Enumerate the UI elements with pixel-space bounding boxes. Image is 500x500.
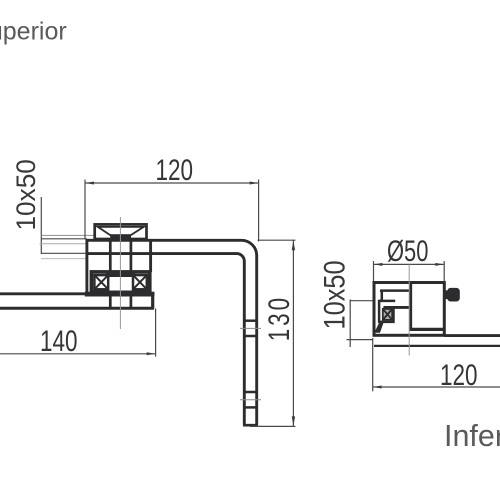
dimension 140 right arrow bbox=[147, 352, 156, 355]
bolt centerline left view bbox=[119, 217, 121, 329]
bolt shank right side bbox=[130, 239, 133, 308]
dimension 120 top left arrow bbox=[85, 182, 94, 185]
dimension D50 left extension line bbox=[373, 261, 375, 281]
svg-text:130: 130 bbox=[262, 298, 296, 342]
hook leg section profile: top flange line bbox=[380, 289, 411, 292]
dimension 120 top left extension line bbox=[84, 180, 86, 239]
rail right end cap bbox=[151, 293, 154, 309]
leg slot lower centerline bbox=[240, 399, 261, 401]
svg-text:Ø50: Ø50 bbox=[387, 233, 428, 267]
hook leg section profile: right web bbox=[392, 306, 395, 322]
roof hook leg bottom edge bbox=[243, 424, 258, 427]
hook leg section profile: left web bbox=[378, 300, 381, 323]
dimension 120 bottom line bbox=[373, 386, 500, 388]
svg-text:Inferior: Inferior bbox=[444, 419, 500, 453]
dimension 120 top line bbox=[85, 182, 259, 184]
countersunk bolt head box bbox=[95, 224, 147, 239]
leg slot upper centerline bbox=[240, 327, 261, 329]
leg slot upper line 2 bbox=[244, 335, 256, 338]
dimension D50 right arrow bbox=[435, 263, 444, 266]
rail bottom edge bbox=[0, 307, 154, 310]
faint reference line lower bbox=[40, 243, 88, 245]
roof hook L-arm outer contour bbox=[86, 240, 257, 425]
hook leg section foot bbox=[374, 323, 383, 333]
nut block outline bbox=[91, 272, 149, 292]
nut top band bbox=[106, 271, 135, 277]
dimension 120 top right extension line bbox=[258, 180, 260, 242]
dimension D50 left arrow bbox=[374, 263, 383, 266]
leg slot upper line 1 bbox=[244, 319, 256, 322]
rail top edge (right view) bbox=[444, 334, 500, 337]
bolt shank left side bbox=[109, 239, 112, 308]
washer plate bbox=[85, 292, 155, 297]
svg-text:10x50: 10x50 bbox=[318, 260, 351, 329]
faint reference line upper bbox=[41, 234, 94, 236]
hook leg section profile: upper web bbox=[381, 290, 384, 302]
side bolt neck bbox=[444, 290, 448, 299]
dimension 120 top right arrow bbox=[250, 182, 259, 185]
countersunk bolt neck shading bbox=[110, 234, 131, 239]
hook leg section hatched square bbox=[383, 309, 392, 320]
svg-text:120: 120 bbox=[156, 153, 194, 187]
dimension 130 top arrow bbox=[292, 241, 295, 251]
dimension 130 bottom extension line bbox=[250, 425, 295, 427]
dimension 130 bottom arrow bbox=[292, 416, 295, 426]
hook leg section profile: mid line bbox=[378, 300, 395, 303]
nut right hatched square bbox=[133, 275, 147, 289]
dimension D50 right extension line bbox=[443, 261, 445, 282]
dimension D50 line bbox=[374, 263, 445, 265]
clamp right end cap bbox=[149, 239, 152, 272]
dimension 140 line bbox=[0, 353, 156, 355]
nut left hatched square bbox=[94, 275, 108, 289]
clamp inner cavity bottom bbox=[410, 328, 444, 331]
rail top edge bbox=[0, 292, 154, 295]
svg-text:140: 140 bbox=[40, 324, 78, 358]
dimension 10x50 left vertical connector bbox=[40, 197, 42, 254]
dimension 120 bottom extension line bbox=[372, 338, 374, 391]
dimension 130 line bbox=[292, 240, 294, 426]
leg slot lower line 2 bbox=[244, 406, 256, 409]
side bolt head bbox=[447, 288, 460, 302]
dimension 120 bottom left arrow bbox=[373, 386, 382, 389]
svg-text:10x50: 10x50 bbox=[10, 159, 40, 230]
roof hook L-arm inner contour bbox=[86, 254, 244, 426]
countersunk bolt funnel bbox=[98, 227, 144, 236]
dimension 10x50 left extension line bottom bbox=[41, 252, 87, 254]
bolt centerline right view bbox=[408, 265, 410, 356]
hook leg section profile: bottom line bbox=[378, 321, 394, 324]
dimension 10x50 right vertical connector bbox=[349, 299, 351, 347]
dimension 130 top extension line bbox=[258, 239, 296, 241]
clamp body outline (bottom view) bbox=[374, 283, 444, 336]
dimension 140 extension line bbox=[155, 309, 157, 357]
dimension 10x50 left extension line top bbox=[41, 238, 87, 240]
hook leg section profile: slot line bbox=[383, 306, 410, 309]
clamp inner cavity wall bbox=[409, 284, 412, 330]
rail bottom edge (right view) bbox=[374, 345, 500, 347]
svg-text:Superior: Superior bbox=[0, 18, 67, 46]
dimension 10x50 right extension line top bbox=[350, 300, 374, 302]
clamp left end cap bbox=[85, 239, 88, 294]
faint reference line below arm bbox=[41, 258, 87, 260]
leg slot lower line 1 bbox=[244, 391, 256, 394]
dimension 10x50 right extension line bottom bbox=[347, 339, 374, 341]
